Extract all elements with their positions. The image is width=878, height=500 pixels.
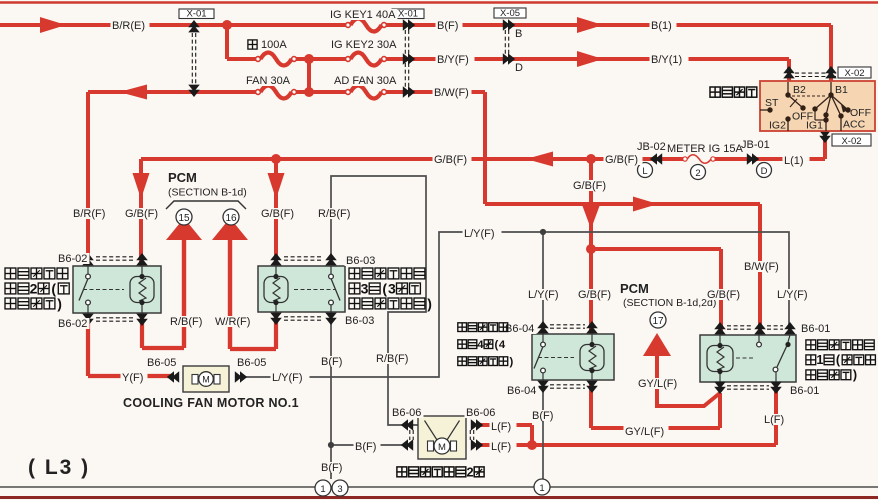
svg-text:ACC: ACC bbox=[843, 119, 866, 131]
svg-text:L/Y(F): L/Y(F) bbox=[528, 289, 559, 301]
label B/W(F) at 434,96 bbox=[433, 87, 472, 98]
label JB-01 at 741,148 bbox=[740, 139, 773, 150]
svg-text:X-01: X-01 bbox=[186, 9, 206, 20]
svg-text:B/W(F): B/W(F) bbox=[744, 261, 779, 273]
svg-text:D: D bbox=[761, 166, 768, 177]
fuse FAN 30A bbox=[256, 90, 261, 95]
arrow B/W(F) bbox=[633, 197, 658, 212]
connector X-02 top bbox=[795, 72, 836, 74]
svg-text:GY/L(F): GY/L(F) bbox=[625, 426, 664, 438]
circle D bbox=[757, 163, 772, 178]
page border top bbox=[0, 1, 878, 4]
svg-text:B/Y(1): B/Y(1) bbox=[651, 54, 682, 66]
svg-text:X-05: X-05 bbox=[500, 8, 520, 19]
svg-text:B(F): B(F) bbox=[321, 356, 342, 368]
svg-text:X-02: X-02 bbox=[841, 136, 861, 147]
fuse MAIN 100A bbox=[256, 57, 261, 62]
motor no.2 (leng que feng shan ma da 2 hao) bbox=[418, 416, 466, 459]
label (L3) bbox=[27, 457, 111, 478]
svg-text:JB-01: JB-01 bbox=[741, 139, 770, 151]
svg-text:PCM: PCM bbox=[168, 170, 197, 185]
ground circle 1 left bbox=[315, 480, 331, 496]
junction row1 bbox=[222, 20, 232, 30]
label R/B(F) at 376,362 bbox=[375, 353, 414, 364]
svg-text:G/B(F): G/B(F) bbox=[573, 180, 606, 192]
ignition switch (dian huo kai guan) bbox=[760, 81, 875, 131]
svg-text:B6-01: B6-01 bbox=[790, 385, 819, 397]
wire row1-row2 drop bbox=[225, 25, 229, 59]
wire L(F) motor2 top branch bbox=[478, 423, 532, 427]
svg-text:G/B(F): G/B(F) bbox=[261, 208, 294, 220]
svg-text:M: M bbox=[202, 375, 210, 385]
label B(F) at 321,365 bbox=[320, 356, 347, 367]
svg-text:IG KEY2 30A: IG KEY2 30A bbox=[331, 39, 397, 51]
svg-text:L: L bbox=[642, 166, 647, 177]
svg-text:B: B bbox=[515, 28, 522, 40]
label L/Y(F) at 777,298 bbox=[776, 289, 815, 300]
svg-text:G/B(F): G/B(F) bbox=[605, 154, 638, 166]
connector X-02 bottom bbox=[819, 136, 831, 143]
svg-text:L(F): L(F) bbox=[491, 421, 511, 433]
circle L bbox=[638, 163, 653, 178]
svg-text:FAN 30A: FAN 30A bbox=[246, 75, 291, 87]
label B/Y(F) at 437,63 bbox=[436, 54, 475, 65]
svg-text:B(F): B(F) bbox=[321, 462, 342, 474]
wire rows2-3 junction link bbox=[307, 59, 311, 92]
arrow B(1) bbox=[577, 17, 603, 33]
svg-text:B6-04: B6-04 bbox=[505, 323, 534, 335]
connector X-05 bbox=[504, 30, 506, 54]
PCM bracket bbox=[166, 201, 246, 209]
svg-text:17: 17 bbox=[652, 316, 664, 327]
wire G/B(F) drop to relay4 coil bbox=[589, 159, 593, 335]
svg-text:B6-06: B6-06 bbox=[392, 407, 421, 419]
label B(1) at 651,29 bbox=[650, 20, 677, 31]
svg-text:2: 2 bbox=[695, 168, 700, 179]
svg-text:16: 16 bbox=[225, 213, 237, 224]
svg-text:COOLING FAN MOTOR NO.1: COOLING FAN MOTOR NO.1 bbox=[123, 396, 299, 410]
ground rail bbox=[0, 486, 878, 488]
label G/B(F) at 434,163 bbox=[433, 154, 472, 165]
svg-text:OFF: OFF bbox=[850, 107, 871, 119]
svg-text:Y(F): Y(F) bbox=[122, 372, 143, 384]
svg-text:L/Y(F): L/Y(F) bbox=[464, 228, 495, 240]
arrow row3 left bbox=[119, 85, 147, 100]
arrow G/B(F) bus left bbox=[526, 152, 553, 167]
svg-text:B(F): B(F) bbox=[532, 410, 553, 422]
svg-text:B6-02: B6-02 bbox=[58, 318, 87, 330]
svg-text:X-02: X-02 bbox=[844, 68, 864, 79]
label L(F) at 491,450 bbox=[490, 441, 517, 452]
wire B(F) relay3 out down bbox=[330, 311, 332, 479]
junction L/Y(F) bus bbox=[540, 229, 546, 235]
wire L(1) from ignition switch bbox=[823, 130, 827, 159]
connector X-01 left label bbox=[179, 9, 214, 19]
wire B(F) branch to motor2 bbox=[331, 444, 406, 446]
label L(1) at 784,164 bbox=[783, 155, 810, 166]
svg-text:X-01: X-01 bbox=[398, 9, 418, 20]
label L/Y(F) at 528,298 bbox=[527, 289, 566, 300]
connector X-05 label bbox=[494, 8, 526, 18]
fuse IG KEY2 30A bbox=[346, 57, 351, 62]
svg-text:JB-02: JB-02 bbox=[637, 141, 666, 153]
arrow PCM pin17 bbox=[643, 333, 671, 356]
wire B(F) relay4 down to ground rail bbox=[542, 380, 544, 479]
connector X-01 right bbox=[404, 30, 406, 87]
junction row2 bbox=[304, 54, 314, 64]
svg-text:B6-05: B6-05 bbox=[147, 357, 176, 369]
svg-text:1: 1 bbox=[539, 483, 544, 494]
svg-text:W/R(F): W/R(F) bbox=[215, 316, 250, 328]
svg-text:L/Y(F): L/Y(F) bbox=[272, 372, 303, 384]
svg-text:4: 4 bbox=[499, 339, 506, 351]
label L(F) at 491,430 bbox=[490, 421, 517, 432]
svg-text:B1: B1 bbox=[835, 84, 848, 96]
svg-text:): ) bbox=[853, 368, 857, 382]
relay B6-04 bottom connector bbox=[537, 386, 549, 393]
arrow G/B(F) relay3 drop bbox=[268, 173, 285, 199]
svg-text:2: 2 bbox=[30, 281, 38, 297]
wire G/B(F) branch to relay1 coil bbox=[591, 247, 721, 251]
connector X-01 right label bbox=[392, 9, 424, 19]
label B(F) at 355,450 bbox=[354, 441, 381, 452]
label GY/L(F) at 625,435 bbox=[624, 426, 669, 437]
svg-text:L(F): L(F) bbox=[491, 441, 511, 453]
pin D X-05 bbox=[514, 62, 523, 73]
wire W/R(F) relay3 coil to PCM pin16 bbox=[274, 311, 278, 349]
junction G/B bus relay3 bbox=[271, 154, 281, 164]
relay B6-03 cooling fan relay no.3 bbox=[258, 266, 345, 312]
label MAIN fuse (zhu 100A) bbox=[248, 40, 257, 49]
svg-text:R/B(F): R/B(F) bbox=[376, 353, 408, 365]
label L/Y(F) at 272,381 bbox=[271, 372, 310, 383]
svg-text:G/B(F): G/B(F) bbox=[578, 289, 611, 301]
svg-text:B6-06: B6-06 bbox=[466, 407, 495, 419]
PCM pin 16 bbox=[223, 209, 239, 225]
svg-text:(: ( bbox=[382, 281, 387, 297]
relay B6-03 bottom connector bbox=[270, 318, 282, 325]
connector X-01 left bbox=[191, 33, 193, 84]
wire B/W(F) down and across bbox=[483, 92, 487, 204]
svg-text:B6-05: B6-05 bbox=[237, 357, 266, 369]
svg-text:IG2: IG2 bbox=[769, 120, 786, 132]
svg-text:L(1): L(1) bbox=[784, 155, 804, 167]
arrow B/Y(1) bbox=[577, 51, 603, 67]
wire G/B(F) main bus bbox=[141, 157, 685, 161]
svg-text:G/B(F): G/B(F) bbox=[434, 154, 467, 166]
svg-text:): ) bbox=[427, 296, 432, 312]
svg-text:B6-03: B6-03 bbox=[345, 315, 374, 327]
label B6-06 at 466,416 bbox=[465, 407, 498, 418]
junction B(F) motor2 bbox=[328, 442, 334, 448]
svg-text:B6-04: B6-04 bbox=[507, 385, 536, 397]
svg-text:IG1: IG1 bbox=[806, 120, 823, 132]
svg-text:B(1): B(1) bbox=[651, 20, 672, 32]
wire L/Y(F) motor1 to bus bbox=[244, 232, 789, 377]
wire L(F) relay1 out to motor2 bbox=[774, 381, 778, 445]
label R/B(F) at 170,325 bbox=[169, 316, 208, 327]
svg-text:): ) bbox=[57, 296, 62, 312]
fuse IG KEY1 40A bbox=[346, 23, 351, 28]
svg-text:B(F): B(F) bbox=[437, 20, 458, 32]
label B6-01 at 801,332 bbox=[800, 323, 833, 334]
label G/B(F) at 573,189 bbox=[572, 180, 611, 191]
label B6-04 at 505,332 bbox=[504, 323, 537, 334]
svg-text:G/B(F): G/B(F) bbox=[125, 208, 158, 220]
ground circle 3 bbox=[332, 480, 348, 496]
label B6-04 at 507,394 bbox=[506, 385, 539, 396]
relay B6-03 top connector bbox=[270, 253, 282, 260]
svg-text:IG KEY1 40A: IG KEY1 40A bbox=[330, 9, 396, 21]
svg-text:2: 2 bbox=[466, 464, 473, 479]
pin B X-05 bbox=[514, 28, 523, 39]
label COOLING FAN MOTOR NO.1 bbox=[122, 397, 282, 410]
relay B6-04 cooling fan relay no.4 bbox=[532, 334, 614, 380]
JB-02 arrow bbox=[655, 153, 662, 165]
svg-text:1: 1 bbox=[816, 353, 823, 367]
label B6-03 at 346,264 bbox=[345, 255, 378, 266]
svg-text:B2: B2 bbox=[793, 84, 806, 96]
svg-text:ST: ST bbox=[765, 97, 779, 109]
svg-text:D: D bbox=[515, 62, 523, 74]
svg-text:PCM: PCM bbox=[620, 281, 649, 296]
ignition switch name label bbox=[710, 87, 720, 97]
arrow on B/R(E) bbox=[40, 17, 66, 33]
label L/Y(F) at 464,237 bbox=[463, 228, 502, 239]
motor1 left connector bbox=[172, 371, 179, 383]
svg-text:(: ( bbox=[495, 339, 499, 351]
label W/R(F) at 215,325 bbox=[214, 316, 253, 327]
label GY/L(F) at 638,387 bbox=[637, 378, 682, 389]
circle 2 bbox=[691, 165, 706, 180]
junction G/B branch bbox=[586, 244, 596, 254]
svg-text:): ) bbox=[509, 356, 513, 368]
wire L/Y(F) drop to relay4 bbox=[542, 232, 544, 336]
arrow G/B(F) relay4 drop bbox=[583, 206, 600, 229]
label L(F) at 764,423 bbox=[763, 414, 790, 425]
svg-text:B6-03: B6-03 bbox=[346, 255, 375, 267]
svg-text:3: 3 bbox=[361, 281, 369, 297]
svg-text:B6-02: B6-02 bbox=[58, 253, 87, 265]
wire row2 main 100A/IG KEY2 bbox=[227, 57, 258, 61]
label AD FAN 30A at 334,84 bbox=[333, 75, 396, 86]
label IG KEY1 40A at 330,18 bbox=[329, 9, 398, 20]
relay B6-02 cooling fan relay no.2 bbox=[73, 266, 161, 313]
label B/R(F) at 73,217 bbox=[72, 208, 111, 219]
JB-01 arrow bbox=[747, 153, 754, 165]
svg-text:3: 3 bbox=[337, 484, 342, 495]
svg-text:M: M bbox=[438, 442, 446, 453]
motor2 left connector bbox=[406, 419, 413, 431]
junction L(F) motor2 bbox=[527, 440, 537, 450]
label B6-02 at 58,327 bbox=[57, 318, 90, 329]
wire B/R(F) down to relay2 bbox=[86, 92, 90, 267]
connector X-02 top label bbox=[838, 67, 871, 78]
svg-text:L/Y(F): L/Y(F) bbox=[777, 289, 808, 301]
junction row3 bbox=[304, 87, 314, 97]
relay4 name text bbox=[458, 323, 467, 332]
motor1 right connector bbox=[235, 371, 242, 383]
svg-text:L(F): L(F) bbox=[764, 414, 784, 426]
svg-text:B/R(E): B/R(E) bbox=[112, 20, 145, 32]
motor COOLING FAN MOTOR NO.1 bbox=[183, 366, 229, 392]
label R/B(F) at 318,217 bbox=[317, 208, 356, 219]
label B(F) at 532,419 bbox=[531, 410, 558, 421]
svg-text:B(F): B(F) bbox=[355, 441, 376, 453]
wire R/B(F) relay3 switch loop to motor2 bbox=[331, 176, 426, 425]
wire R/B(F) relay2 coil to PCM pin15 bbox=[140, 312, 144, 348]
relay1 name text bbox=[806, 340, 816, 350]
motor2 right connector bbox=[471, 419, 478, 431]
label B6-02 at 58,262 bbox=[57, 253, 90, 264]
relay3 name text bbox=[349, 268, 360, 279]
svg-text:AD FAN 30A: AD FAN 30A bbox=[334, 75, 397, 87]
motor2 name text bbox=[397, 467, 407, 477]
relay2 name text bbox=[5, 268, 16, 279]
label Y(F) at 122,381 bbox=[121, 372, 148, 383]
relay B6-02 top connector bbox=[82, 253, 94, 260]
svg-text:G/B(F): G/B(F) bbox=[707, 289, 740, 301]
svg-text:R/B(F): R/B(F) bbox=[318, 208, 350, 220]
svg-text:B6-01: B6-01 bbox=[801, 323, 830, 335]
PCM pin 17 bbox=[650, 312, 666, 328]
svg-text:METER IG 15A: METER IG 15A bbox=[667, 143, 743, 155]
label B6-05 at 147,366 bbox=[146, 357, 179, 368]
label B6-06 at 392,416 bbox=[391, 407, 424, 418]
wire G/B(F) drop to relay2 coil bbox=[139, 159, 143, 267]
relay B6-01 top connector bbox=[714, 322, 726, 329]
label G/B(F) at 707,298 bbox=[706, 289, 745, 300]
label B6-05 at 237,366 bbox=[236, 357, 269, 368]
label G/B(F) at 125,217 bbox=[124, 208, 163, 219]
label B6-01 at 790,394 bbox=[789, 385, 822, 396]
label G/B(F) at 261,217 bbox=[260, 208, 299, 219]
label JB-02 at 637,150 bbox=[636, 141, 669, 152]
wire GY/L(F) PCM17 / relay1 coil / relay4 out bbox=[657, 356, 720, 406]
label B6-03 at 345,324 bbox=[344, 315, 377, 326]
ground circle 1 right bbox=[534, 479, 550, 495]
svg-text:R/B(F): R/B(F) bbox=[170, 316, 202, 328]
wire Y(F) relay2 to motor1 bbox=[86, 312, 90, 376]
svg-text:B/R(F): B/R(F) bbox=[73, 208, 105, 220]
svg-text:(: ( bbox=[51, 281, 56, 297]
wire G/B(F) drop to relay3 coil bbox=[274, 159, 278, 267]
label B/Y(1) at 651,63 bbox=[650, 54, 689, 65]
svg-text:B/W(F): B/W(F) bbox=[434, 87, 469, 99]
connector X-02 bottom label bbox=[832, 134, 871, 146]
label B/W(F) at 744,270 bbox=[743, 261, 782, 272]
fuse METER IG 15A bbox=[683, 157, 687, 161]
wire B/R(E) fuse-box feed row1 bbox=[0, 23, 348, 27]
svg-text:4: 4 bbox=[477, 339, 484, 351]
page border bottom bbox=[0, 496, 878, 499]
svg-text:100A: 100A bbox=[261, 39, 287, 51]
label B/R(E) at 112,29 bbox=[111, 20, 150, 31]
relay B6-01 bottom connector bbox=[714, 387, 726, 394]
svg-text:3: 3 bbox=[388, 281, 396, 297]
arrow G/B(F) relay2 drop bbox=[133, 173, 150, 199]
label B(F) at 437,29 bbox=[436, 20, 463, 31]
junction G/B bus right bbox=[586, 154, 596, 164]
label FAN 30A at 246,84 bbox=[245, 75, 290, 86]
svg-text:(SECTION B-1d): (SECTION B-1d) bbox=[168, 187, 247, 199]
label IG KEY2 30A at 331,48 bbox=[330, 39, 399, 50]
arrow PCM pin16 bbox=[212, 218, 248, 240]
fuse AD FAN 30A bbox=[346, 90, 351, 95]
label METER IG 15A at 667,152 bbox=[666, 143, 741, 154]
svg-text:GY/L(F): GY/L(F) bbox=[638, 378, 677, 390]
svg-text:1: 1 bbox=[320, 484, 325, 495]
svg-text:(SECTION B-1d,2d): (SECTION B-1d,2d) bbox=[623, 297, 716, 309]
svg-text:15: 15 bbox=[178, 213, 190, 224]
label G/B(F) at 605,163 bbox=[604, 154, 643, 165]
svg-text:B/Y(F): B/Y(F) bbox=[437, 54, 469, 66]
wire row3 FAN/AD FAN bbox=[88, 90, 258, 94]
PCM pin 15 bbox=[176, 209, 192, 225]
label B(F) at 321,471 bbox=[320, 462, 347, 473]
svg-text:( L3 ): ( L3 ) bbox=[28, 456, 90, 479]
relay B6-04 top connector bbox=[537, 321, 549, 328]
relay B6-01 cooling fan relay no.1 bbox=[700, 335, 796, 382]
relay B6-02 bottom connector bbox=[82, 319, 94, 326]
arrow PCM pin15 bbox=[166, 218, 202, 240]
label G/B(F) at 578,298 bbox=[577, 289, 616, 300]
